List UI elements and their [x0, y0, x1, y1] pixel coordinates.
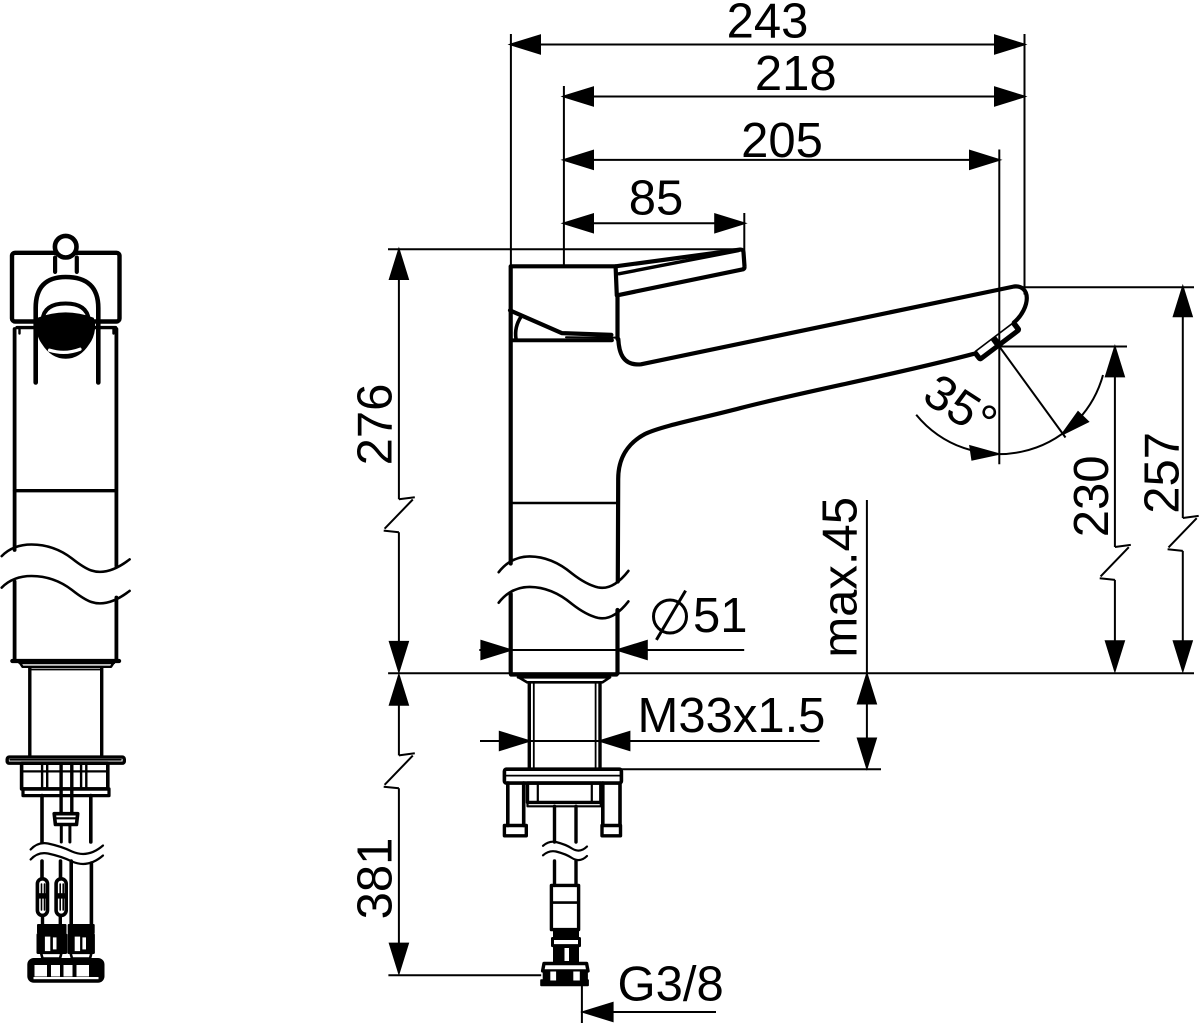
supply tube upper: [555, 806, 577, 842]
base ring: [518, 677, 610, 682]
G3/8 leader line: [582, 985, 716, 1023]
hose D upper: [89, 796, 93, 842]
body left edge: [13, 329, 17, 660]
dim 230 top arrow: [1106, 347, 1124, 376]
dim 381 line upper: [398, 676, 400, 756]
break zigzag 381: [384, 753, 415, 788]
capsule 2: [56, 879, 66, 916]
angle 35 arc arrow at ray: [1062, 412, 1088, 434]
black band left: [38, 925, 66, 933]
nut body slots: [550, 972, 556, 981]
lever knob circle: [55, 236, 77, 258]
G3/8 nut flare: [543, 964, 588, 971]
ext line 85 right: [743, 213, 745, 253]
dim 257 bottom arrow: [1174, 641, 1192, 670]
spout arch (end-on): [36, 277, 99, 383]
svg-text:G3/8: G3/8: [618, 958, 724, 1012]
front break wave upper: [2, 545, 130, 572]
M33 left arrow: [500, 732, 529, 750]
handle cap left edge: [509, 266, 513, 310]
hose A mid: [40, 861, 44, 879]
dim 243 right arrow: [995, 36, 1024, 54]
hose A upper: [40, 796, 44, 842]
dim 243 left arrow: [511, 36, 540, 54]
cap bottom edge: [15, 320, 118, 323]
dim 276 line lower: [398, 532, 400, 671]
capsule tails: [43, 915, 61, 925]
dia51 left arrow: [481, 641, 510, 659]
dim max45 top arrow: [858, 675, 876, 704]
body top edge line: [566, 336, 616, 338]
svg-text:257: 257: [1136, 432, 1190, 514]
label dia51 symbol: [654, 591, 687, 640]
angle 35 arc: [916, 375, 1103, 454]
black band right: [69, 925, 94, 933]
counter line: [388, 672, 1194, 674]
dim 276 top arrow: [390, 250, 408, 279]
spout tip reference line 257: [1020, 286, 1194, 288]
supply tube mid: [555, 861, 577, 885]
shank tube: [529, 683, 600, 768]
front body bottom: [12, 659, 119, 663]
hose white collar: [553, 939, 580, 946]
mounting nut block: [528, 783, 601, 802]
dim 85 line: [564, 222, 744, 224]
ext line 205 right / outlet vertical: [998, 150, 1000, 465]
dim 276 line upper: [398, 250, 400, 499]
horseshoe washer left leg: [508, 783, 524, 825]
handle cap front arc: [516, 317, 521, 339]
body right edge lower: [615, 610, 619, 674]
G3/8 nut bottom lip: [541, 980, 588, 985]
dia51 right arrow: [618, 641, 647, 659]
rod lower: [61, 825, 70, 843]
dim 243 line: [511, 44, 1024, 46]
body top edge: [17, 326, 116, 329]
nut block facets: [538, 783, 592, 802]
angle 35 arc arrow at vertical: [970, 446, 998, 459]
front base ring: [20, 663, 115, 667]
spout root left edge: [615, 295, 619, 339]
M33 right arrow: [600, 732, 629, 750]
ext line flange top right: [621, 768, 881, 770]
fitting divider: [551, 901, 578, 904]
front nut block: [22, 763, 108, 789]
front collar under nut: [23, 789, 109, 796]
dim max45 line: [866, 500, 868, 768]
left step: [41, 953, 62, 959]
mounting flange plate: [504, 769, 621, 783]
front flange mid line: [10, 759, 121, 761]
ext line 243 left: [510, 34, 512, 265]
dim 381 line lower: [398, 788, 400, 972]
dim max45 bottom arrow: [858, 739, 876, 768]
spout opening dark area: [37, 313, 94, 357]
opening white crescent: [50, 349, 81, 352]
ext line 243/218 right: [1024, 34, 1026, 295]
compression fitting: [551, 885, 578, 929]
capsule 1: [37, 879, 47, 916]
dim 205 right arrow: [970, 151, 999, 169]
horseshoe left foot: [504, 826, 526, 836]
svg-text:85: 85: [629, 172, 684, 226]
manifold block: [29, 960, 103, 982]
dim 205 line: [564, 159, 999, 161]
front shank: [30, 668, 102, 757]
ext line 381 bottom: [388, 974, 541, 976]
handle cap bottom sloped edge: [510, 310, 611, 335]
svg-text:230: 230: [1065, 456, 1119, 538]
front flange plate: [7, 757, 124, 763]
dim 85 left arrow: [564, 214, 593, 232]
shank inner lines: [534, 683, 596, 768]
nut block left: [38, 935, 66, 953]
dim M33 line: [480, 740, 820, 742]
handle cap rectangle: [12, 253, 120, 322]
G3/8 arrow: [584, 1003, 613, 1021]
dim 230 line lower: [1114, 580, 1116, 670]
body joint line: [15, 489, 117, 492]
spout top edge with root fillet, straight rise to tip, rounded tip end: [618, 286, 1027, 364]
body joint line at top of body: [511, 338, 612, 342]
spout inner top arc: [43, 304, 89, 321]
flange mid line: [506, 775, 620, 777]
top reference line for 276: [388, 248, 741, 250]
rod adjuster nut: [54, 814, 77, 825]
front shank top line: [32, 669, 101, 671]
svg-text:381: 381: [349, 838, 403, 920]
dim 218 right arrow: [995, 88, 1024, 106]
body left edge lower: [509, 594, 513, 674]
dim 257 line lower: [1182, 551, 1184, 670]
svg-text:218: 218: [755, 47, 837, 101]
break zigzag 230: [1100, 545, 1131, 580]
angle 35 diagonal ray: [999, 347, 1065, 438]
rod adjuster nut line: [55, 817, 77, 819]
svg-text:51: 51: [693, 589, 748, 643]
break zigzag 257: [1168, 516, 1199, 551]
dim 230 line upper: [1114, 347, 1116, 547]
ext line 218/205/85 left: [563, 86, 565, 266]
dim 381 top arrow: [390, 676, 408, 705]
horseshoe washer right leg: [603, 783, 620, 825]
rod mid: [59, 861, 63, 879]
front nut facets: [42, 763, 86, 789]
lower break wave upper: [31, 843, 103, 854]
supply tube break wave lower: [543, 851, 587, 860]
hose section slit: [565, 948, 570, 961]
right step: [71, 953, 92, 959]
horseshoe right foot: [602, 826, 621, 836]
tube C-D: [71, 861, 91, 925]
nut lower plate: [528, 802, 601, 806]
svg-text:243: 243: [727, 0, 809, 49]
svg-text:276: 276: [349, 384, 403, 466]
dim 230 bottom arrow: [1106, 641, 1124, 670]
body top ticks: [20, 328, 114, 334]
dim 381 bottom arrow: [390, 944, 408, 973]
body break wave lower: [499, 587, 629, 618]
front break wave lower: [2, 576, 130, 603]
lever neck: [55, 258, 77, 272]
break zigzag 276: [384, 497, 415, 532]
hose black collar: [554, 930, 578, 939]
threaded rod upper: [61, 763, 72, 814]
dim 218 left arrow: [564, 88, 593, 106]
dim 257 line upper: [1182, 287, 1184, 518]
outlet reference line 230: [999, 346, 1127, 348]
body mid joint line: [512, 502, 618, 504]
lever handle (side view): [616, 250, 745, 296]
nut block right: [69, 935, 94, 953]
svg-text:max.45: max.45: [814, 497, 868, 658]
aerator block: [972, 320, 1023, 362]
dim dia51 line: [479, 649, 744, 651]
body bottom edge on counter: [511, 672, 617, 676]
dim 205 left arrow: [564, 151, 593, 169]
dim 218 line: [564, 96, 1024, 98]
lower break wave lower: [31, 853, 103, 864]
svg-text:205: 205: [741, 114, 823, 168]
handle cap top: [511, 264, 616, 268]
G3/8 nut body: [544, 971, 587, 981]
dim 276 bottom arrow: [390, 642, 408, 671]
dim 257 top arrow: [1174, 287, 1192, 316]
front nut inner line: [22, 770, 108, 772]
hose black section: [554, 946, 578, 963]
svg-text:M33x1.5: M33x1.5: [638, 689, 826, 743]
supply tube break wave upper: [543, 842, 587, 851]
spout underside from aerator to body fillet: [618, 354, 974, 582]
dim 85 right arrow: [715, 214, 744, 232]
body break wave upper: [499, 556, 629, 587]
body left edge upper: [509, 310, 513, 564]
body right edge: [115, 329, 119, 660]
lever top facet line: [619, 251, 739, 274]
